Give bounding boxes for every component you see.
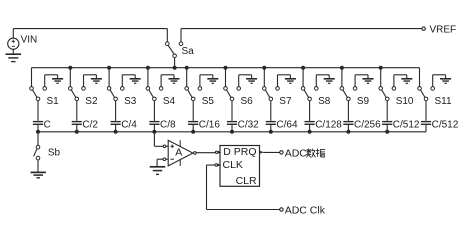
ground (S8) — [316, 75, 334, 84]
ground (Sb) — [30, 172, 46, 177]
svg-text:ADC Clk: ADC Clk — [285, 204, 326, 216]
svg-text:S10: S10 — [396, 96, 414, 107]
ground (S11) — [433, 75, 451, 84]
svg-text:S6: S6 — [241, 96, 254, 107]
svg-text:D PRQ: D PRQ — [223, 146, 256, 158]
voltage source VIN — [8, 29, 38, 54]
wire comparator output to D — [196, 152, 215, 154]
wire C/8 to bottom bus — [153, 125, 155, 132]
node VREF terminal — [422, 24, 456, 35]
svg-text:C/32: C/32 — [238, 120, 260, 131]
pin D input — [215, 151, 221, 154]
wire C/32 to bottom bus — [231, 125, 233, 132]
capacitor C — [33, 120, 51, 131]
svg-text:S7: S7 — [279, 96, 292, 107]
svg-text:S3: S3 — [124, 96, 137, 107]
svg-text:ADC: ADC — [285, 147, 308, 159]
wire Q to ADC data terminal — [263, 151, 279, 153]
wire S1 pole to C — [37, 101, 39, 121]
switch Sa — [166, 29, 195, 68]
ground (VIN source) — [6, 54, 21, 61]
wire S5 pole to C/16 — [192, 101, 194, 121]
wire S4 pole to C/8 — [153, 101, 155, 121]
node ADC data terminal — [280, 147, 308, 159]
flip-flop U1 (D latch) — [220, 146, 260, 188]
switch S11 — [418, 68, 452, 108]
capacitor C/256 — [343, 120, 381, 131]
svg-text:VREF: VREF — [430, 24, 457, 35]
switch S9 — [340, 68, 369, 108]
svg-text:C/4: C/4 — [121, 120, 137, 131]
ground (S4) — [161, 75, 179, 84]
op-amp A (comparator) — [163, 140, 193, 166]
wire C/16 to bottom bus — [192, 125, 194, 132]
wire Sa to VREF (top rail right) — [181, 28, 422, 30]
wire S10 pole to C/512 — [386, 101, 388, 121]
wire VIN to Sa (top rail left) — [13, 28, 167, 30]
ground (S5) — [200, 75, 218, 84]
ground (S9) — [355, 75, 373, 84]
switch S10 — [379, 68, 414, 108]
switch S1 — [30, 68, 59, 108]
svg-text:VIN: VIN — [21, 34, 38, 45]
wire C/512 to bottom bus — [425, 125, 427, 132]
svg-text:C/8: C/8 — [160, 120, 176, 131]
capacitor C/512 — [382, 120, 420, 131]
wire CLK to ADC Clk terminal — [207, 165, 280, 210]
pin Q output — [260, 151, 263, 154]
switch Sb — [34, 132, 61, 172]
wire top bus (Sa common) — [32, 66, 420, 70]
switch S5 — [185, 68, 214, 108]
switch S8 — [301, 68, 330, 108]
wire S6 pole to C/32 — [231, 101, 233, 121]
svg-text:C: C — [44, 120, 51, 131]
svg-text:S5: S5 — [202, 96, 215, 107]
wire S9 pole to C/256 — [347, 101, 349, 121]
capacitor C/8 — [149, 120, 176, 131]
svg-text:C/128: C/128 — [315, 120, 342, 131]
wire comparator - to ground — [157, 159, 163, 166]
svg-text:Sb: Sb — [48, 148, 61, 159]
svg-text:C/512: C/512 — [432, 120, 459, 131]
svg-text:S8: S8 — [318, 96, 331, 107]
svg-text:S9: S9 — [357, 96, 370, 107]
capacitor C/32 — [227, 120, 259, 131]
node ADC Clk terminal — [280, 204, 326, 216]
svg-text:CLR: CLR — [236, 175, 257, 187]
label ADC data (CJK) — [306, 149, 325, 158]
wire C/512 to bottom bus — [386, 125, 388, 132]
switch S3 — [107, 68, 136, 108]
capacitor C/64 — [266, 120, 298, 131]
pin CLK input — [215, 164, 221, 167]
wire bottom bus (comparator node) — [36, 130, 426, 134]
svg-text:S4: S4 — [163, 96, 176, 107]
ground (S1) — [45, 75, 63, 84]
switch S6 — [224, 68, 253, 108]
wire C/2 to bottom bus — [76, 125, 78, 132]
svg-text:Sa: Sa — [182, 46, 195, 57]
wire S3 pole to C/4 — [115, 101, 117, 121]
wire C/256 to bottom bus — [347, 125, 349, 132]
svg-text:S11: S11 — [435, 96, 452, 107]
capacitor C/512 — [421, 120, 459, 131]
wire bus tap to comparator + — [154, 132, 163, 147]
svg-text:C/64: C/64 — [276, 120, 298, 131]
wire C to bottom bus — [37, 125, 39, 132]
ground (S2) — [84, 75, 102, 84]
switch S4 — [146, 68, 175, 108]
svg-text:C/2: C/2 — [82, 120, 98, 131]
wire S11 pole to C/512 — [425, 101, 427, 121]
svg-text:A: A — [175, 146, 182, 158]
svg-text:C/512: C/512 — [393, 120, 420, 131]
capacitor C/2 — [72, 120, 99, 131]
capacitor C/128 — [305, 120, 343, 131]
wire S8 pole to C/128 — [309, 101, 311, 121]
switch S7 — [263, 68, 292, 108]
wire S7 pole to C/64 — [270, 101, 272, 121]
node comparator output — [194, 152, 197, 155]
wire C/128 to bottom bus — [309, 125, 311, 132]
svg-text:C/16: C/16 — [199, 120, 221, 131]
wire S2 pole to C/2 — [76, 101, 78, 121]
capacitor C/4 — [111, 120, 138, 131]
svg-text:S2: S2 — [85, 96, 98, 107]
wire C/4 to bottom bus — [115, 125, 117, 132]
svg-text:S1: S1 — [47, 96, 60, 107]
ground (S7) — [278, 75, 296, 84]
ground (comparator -) — [150, 167, 166, 175]
svg-text:C/256: C/256 — [354, 120, 381, 131]
ground (S10) — [394, 75, 412, 84]
capacitor C/16 — [188, 120, 220, 131]
svg-text:CLK: CLK — [223, 159, 243, 171]
wire C/64 to bottom bus — [270, 125, 272, 132]
ground (S6) — [239, 75, 257, 84]
ground (S3) — [122, 75, 140, 84]
switch S2 — [69, 68, 98, 108]
